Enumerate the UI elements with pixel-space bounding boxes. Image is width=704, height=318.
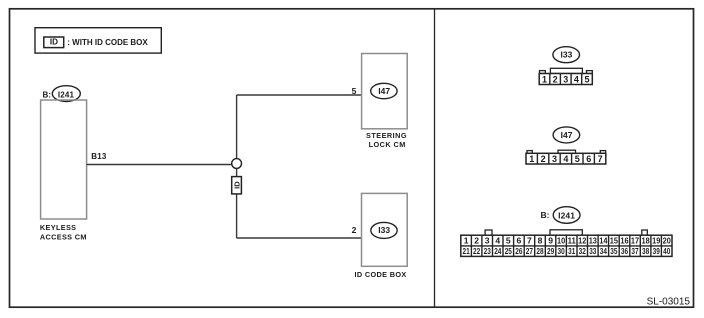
connector oval I47 on steering box <box>371 83 397 98</box>
wire bottom run to id code box <box>237 237 362 239</box>
connector I47 pin dividers <box>537 153 594 164</box>
svg-text:I47: I47 <box>561 130 573 140</box>
junction node <box>232 159 242 169</box>
ID option symbol on wire <box>232 177 242 194</box>
connector I241 row divider <box>461 245 672 247</box>
panel divider line <box>434 9 436 307</box>
svg-text:38: 38 <box>642 246 649 256</box>
svg-text:14: 14 <box>599 236 607 246</box>
svg-text:40: 40 <box>663 246 670 256</box>
svg-text:I241: I241 <box>58 90 75 99</box>
svg-text:2: 2 <box>474 236 479 246</box>
svg-text:1: 1 <box>529 154 534 164</box>
svg-text:32: 32 <box>579 246 586 256</box>
svg-text:16: 16 <box>620 236 628 246</box>
svg-text:I241: I241 <box>558 211 575 221</box>
svg-text:I33: I33 <box>560 50 572 60</box>
steering lock CM box <box>362 54 408 129</box>
connector I241 tab over pin 18 <box>642 230 648 235</box>
connector I33 pin numbers 1-5 <box>542 74 590 84</box>
svg-text:1: 1 <box>542 74 547 84</box>
wire vertical trunk <box>236 95 238 238</box>
svg-text:12: 12 <box>578 236 586 246</box>
svg-text:2: 2 <box>553 74 558 84</box>
svg-text:22: 22 <box>473 246 480 256</box>
svg-text:28: 28 <box>536 246 543 256</box>
connector I241 tab over pin 3 <box>485 230 492 235</box>
svg-text:I33: I33 <box>378 225 390 235</box>
svg-text:26: 26 <box>515 246 522 256</box>
svg-text:39: 39 <box>653 246 660 256</box>
svg-text:ID: ID <box>232 181 241 189</box>
legend box <box>35 28 161 53</box>
svg-text:STEERING: STEERING <box>366 131 407 140</box>
connector I47 oval (right panel) <box>553 127 580 143</box>
connector I33 pin-view body <box>539 74 592 85</box>
connector I33 pin dividers <box>550 74 582 85</box>
wire B13 horizontal <box>87 164 237 166</box>
svg-text:ID CODE BOX: ID CODE BOX <box>355 270 407 279</box>
connector I47 pin numbers 1-7 <box>529 154 602 164</box>
connector I47 pin-view body <box>526 153 606 164</box>
svg-text:ID: ID <box>50 38 58 47</box>
svg-text:20: 20 <box>663 236 671 246</box>
connector I241 pin-view body <box>461 235 672 256</box>
keyless access CM box <box>41 100 87 219</box>
svg-text:5: 5 <box>506 236 511 246</box>
connector I33 pin-view left tab <box>540 71 546 74</box>
wire top run to steering lock <box>237 94 362 96</box>
svg-text:31: 31 <box>568 246 575 256</box>
connector I33 oval (right panel) <box>553 47 580 63</box>
svg-text:37: 37 <box>631 246 638 256</box>
svg-text:4: 4 <box>495 236 500 246</box>
connector I241 pin numbers 21-40 <box>463 246 671 256</box>
connector oval I33 on id code box <box>371 222 397 238</box>
svg-text:7: 7 <box>598 154 603 164</box>
connector I33 pin-view center tab <box>550 68 582 73</box>
svg-text:3: 3 <box>552 154 557 164</box>
svg-text:25: 25 <box>505 246 512 256</box>
svg-text:29: 29 <box>547 246 554 256</box>
svg-text:5: 5 <box>575 154 580 164</box>
svg-text:: WITH ID CODE BOX: : WITH ID CODE BOX <box>67 38 148 47</box>
svg-text:10: 10 <box>557 236 565 246</box>
svg-text:6: 6 <box>517 236 522 246</box>
svg-text:15: 15 <box>610 236 618 246</box>
connector I47 pin-view right tab <box>600 151 605 154</box>
svg-text:36: 36 <box>621 246 628 256</box>
svg-text:13: 13 <box>589 236 597 246</box>
legend ID symbol <box>44 37 64 48</box>
svg-text:SL-03015: SL-03015 <box>647 296 691 307</box>
svg-text:7: 7 <box>527 236 532 246</box>
connector I241 wide tab over pins 9-12 <box>550 230 582 235</box>
svg-text:33: 33 <box>589 246 596 256</box>
svg-text:34: 34 <box>600 246 607 256</box>
connector I47 pin-view left tab <box>527 151 532 154</box>
connector I241 column dividers <box>471 235 661 256</box>
svg-text:1: 1 <box>464 236 469 246</box>
svg-text:8: 8 <box>538 236 543 246</box>
svg-text:4: 4 <box>574 74 579 84</box>
svg-text:6: 6 <box>586 154 591 164</box>
svg-text:11: 11 <box>568 236 576 246</box>
svg-text:5: 5 <box>584 74 589 84</box>
svg-text:17: 17 <box>631 236 639 246</box>
svg-text:21: 21 <box>463 246 470 256</box>
svg-text:B:: B: <box>43 91 51 100</box>
svg-text:18: 18 <box>642 236 650 246</box>
svg-text:KEYLESS: KEYLESS <box>40 223 77 232</box>
svg-text:23: 23 <box>484 246 491 256</box>
connector I33 pin-view right tab <box>587 71 593 74</box>
connector I241 pin numbers 1-20 <box>464 236 671 246</box>
svg-text:3: 3 <box>485 236 490 246</box>
svg-text:I47: I47 <box>378 86 390 96</box>
connector I47 pin-view center tab <box>558 150 576 153</box>
svg-text:LOCK CM: LOCK CM <box>369 140 406 149</box>
svg-text:5: 5 <box>352 86 357 96</box>
svg-text:9: 9 <box>548 236 553 246</box>
svg-text:30: 30 <box>558 246 565 256</box>
svg-text:2: 2 <box>541 154 546 164</box>
svg-text:ACCESS CM: ACCESS CM <box>40 232 87 241</box>
svg-text:35: 35 <box>610 246 617 256</box>
svg-text:24: 24 <box>494 246 501 256</box>
svg-text:27: 27 <box>526 246 533 256</box>
svg-text:B13: B13 <box>91 152 107 161</box>
svg-text:2: 2 <box>352 225 357 235</box>
svg-text:3: 3 <box>563 74 568 84</box>
svg-text:4: 4 <box>563 154 568 164</box>
svg-text:19: 19 <box>652 236 660 246</box>
svg-text:B:: B: <box>541 210 550 220</box>
id code box component <box>362 193 408 266</box>
